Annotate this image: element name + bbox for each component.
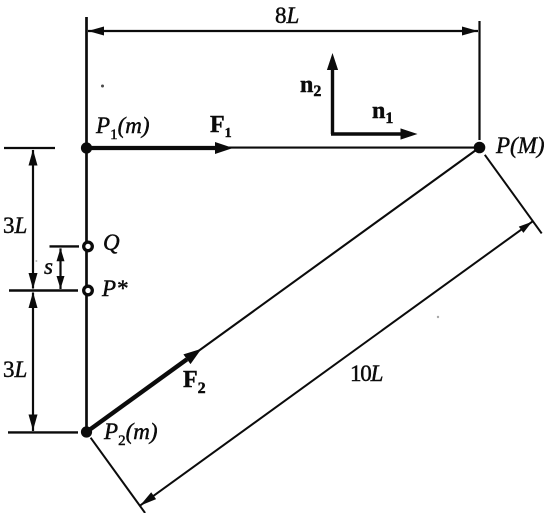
svg-text:3L: 3L xyxy=(3,213,27,238)
10L lower-left arrowhead xyxy=(140,492,156,505)
F2 arrowhead xyxy=(183,349,201,364)
node Q open circle xyxy=(84,242,93,251)
node P(M) filled dot xyxy=(474,142,486,154)
svg-text:n2: n2 xyxy=(300,72,321,100)
n2 arrowhead xyxy=(327,53,338,70)
s dim top arrowhead xyxy=(57,248,65,261)
dimension 3L lower line xyxy=(32,293,34,432)
svg-text:Q: Q xyxy=(103,230,120,255)
node P1(m) filled dot xyxy=(81,142,92,153)
svg-text:F2: F2 xyxy=(183,367,206,397)
wire: 10L extension line from P(M) xyxy=(485,155,542,234)
dimension 3L upper line xyxy=(32,150,34,289)
n1 arrowhead xyxy=(401,128,418,139)
F1 arrowhead xyxy=(215,142,233,154)
speck artifact 3 xyxy=(35,260,37,262)
svg-text:P1(m): P1(m) xyxy=(95,113,150,143)
wire: left extension tick at P2 level xyxy=(8,431,78,433)
8L left arrowhead xyxy=(88,27,104,36)
speck artifact xyxy=(101,85,104,88)
vector n2 arrow line xyxy=(331,62,334,134)
wire: left extension tick at P* level xyxy=(9,289,78,291)
vector n1 arrow line xyxy=(331,132,406,135)
3L lower dim bottom arrowhead xyxy=(29,415,38,431)
wire: 8L dimension line xyxy=(88,30,478,32)
dimension s line xyxy=(59,248,61,289)
dimension 10L line xyxy=(140,221,533,506)
wire: horizontal bar P1 to P(M) xyxy=(87,147,480,149)
svg-text:F1: F1 xyxy=(210,112,232,141)
vector F1 thick shaft xyxy=(87,146,218,150)
wire: s-dimension top tick at Q level xyxy=(50,245,80,247)
svg-text:3L: 3L xyxy=(3,357,27,382)
wire: diagonal bar P2 to P(M) xyxy=(87,148,480,433)
svg-text:P(M): P(M) xyxy=(495,133,545,158)
svg-text:s: s xyxy=(44,254,53,279)
node P* open circle xyxy=(84,286,93,295)
wire: left extension tick at P1 level xyxy=(4,147,55,149)
8L right arrowhead xyxy=(462,27,478,36)
svg-text:8L: 8L xyxy=(275,3,299,28)
s dim bottom arrowhead xyxy=(57,276,65,289)
svg-text:10L: 10L xyxy=(350,361,383,386)
speck artifact 2 xyxy=(437,316,439,318)
node P2(m) filled dot xyxy=(81,426,92,437)
10L upper-right arrowhead xyxy=(519,222,532,233)
svg-text:P2(m): P2(m) xyxy=(103,419,158,449)
3L upper dim top arrowhead xyxy=(29,150,38,166)
3L lower dim top arrowhead xyxy=(29,292,38,308)
svg-text:P*: P* xyxy=(101,276,128,301)
3L upper dim bottom arrowhead xyxy=(29,273,38,289)
wire: left vertical body line xyxy=(85,17,88,432)
wire: right vertical extension line (8L) xyxy=(478,21,480,140)
wire: 10L extension line from P2 xyxy=(91,438,146,513)
svg-text:n1: n1 xyxy=(372,98,393,127)
vector F2 thick shaft xyxy=(87,359,187,432)
